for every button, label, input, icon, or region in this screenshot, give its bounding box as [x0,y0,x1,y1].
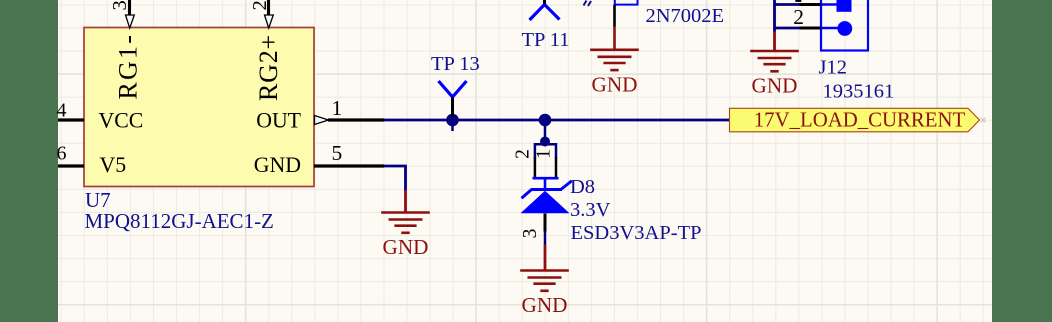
svg-text:2: 2 [793,5,804,29]
svg-text:2N7002E: 2N7002E [646,5,725,27]
svg-text:1: 1 [332,96,343,120]
svg-text:GND: GND [522,293,568,317]
svg-text:RG2+: RG2+ [254,34,283,101]
svg-text:4: 4 [57,100,67,122]
svg-text:GND: GND [592,72,638,96]
svg-text:OUT: OUT [256,108,301,132]
svg-text:J12: J12 [819,57,847,79]
svg-text:3: 3 [109,0,131,10]
svg-text:TP 13: TP 13 [431,53,480,75]
svg-text:GND: GND [752,74,798,98]
svg-text:1: 1 [534,149,555,159]
svg-text:D8: D8 [570,176,595,198]
svg-text:GND: GND [254,153,301,177]
svg-text:RG1-: RG1- [114,33,143,100]
svg-text:ESD3V3AP-TP: ESD3V3AP-TP [571,222,702,244]
svg-text:5: 5 [332,141,343,165]
svg-text:TP 11: TP 11 [522,29,570,51]
svg-text:2: 2 [249,0,271,10]
svg-text:1935161: 1935161 [823,81,895,103]
svg-text:6: 6 [57,143,67,165]
svg-text:2: 2 [513,149,534,159]
svg-text:17V_LOAD_CURRENT: 17V_LOAD_CURRENT [754,109,966,132]
svg-text:GND: GND [383,235,429,259]
svg-text:3.3V: 3.3V [570,199,611,221]
svg-text:VCC: VCC [99,108,144,132]
svg-text:V5: V5 [100,153,127,177]
svg-text:MPQ8112GJ-AEC1-Z: MPQ8112GJ-AEC1-Z [85,209,274,233]
svg-text:3: 3 [520,229,541,239]
